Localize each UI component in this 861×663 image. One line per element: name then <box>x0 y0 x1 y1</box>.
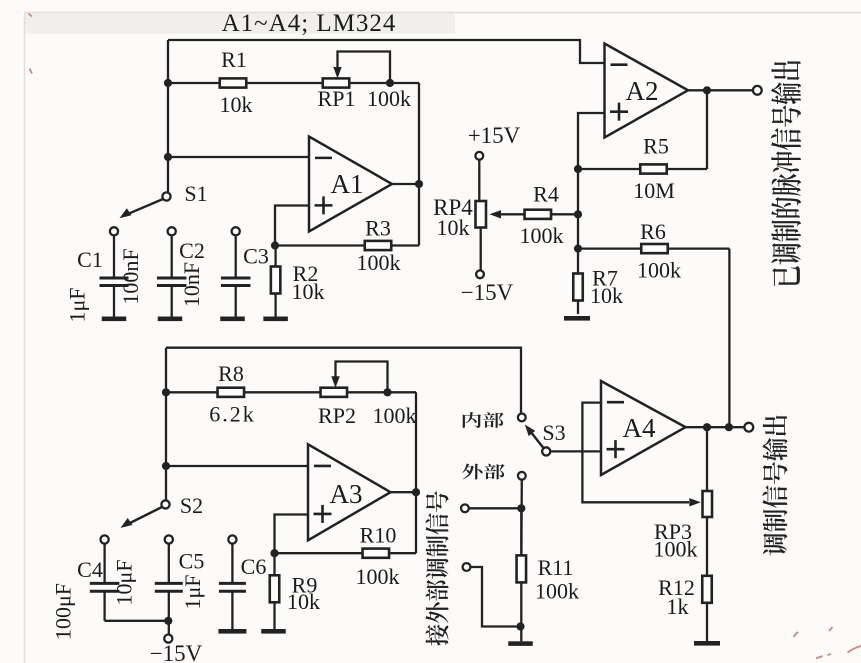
junction rail / A1 inv input <box>164 153 172 161</box>
label modulated pulse signal output <box>771 61 801 286</box>
svg-text:C1: C1 <box>77 247 103 272</box>
junction RP1 right/wiper tie <box>386 79 394 87</box>
junction ext input node <box>517 504 525 512</box>
wire A1 non-inverting input feed <box>275 206 309 246</box>
resistor RP1 <box>323 78 419 87</box>
label modulation signal output <box>762 416 787 556</box>
scan page edge lines <box>25 12 861 14</box>
switch S1 <box>126 192 171 214</box>
switch S2 <box>127 500 170 524</box>
wire A2 output to terminal <box>688 89 753 91</box>
ground C3 ground <box>220 317 245 322</box>
wire A4 inv input to RP3 wiper <box>582 403 689 503</box>
terminal S3 external terminal <box>518 472 526 480</box>
wire A4 output to RP3 <box>706 427 708 491</box>
svg-text:10μF: 10μF <box>112 559 137 605</box>
svg-text:10k: 10k <box>590 283 623 308</box>
wire A1 output <box>392 183 419 185</box>
svg-text:A3: A3 <box>330 479 363 509</box>
svg-text:100k: 100k <box>520 223 564 248</box>
svg-text:−15V: −15V <box>150 641 203 663</box>
wire ext input 2 wire <box>470 567 520 627</box>
RP1 wiper arrow <box>333 67 341 79</box>
svg-text:100k: 100k <box>637 258 681 283</box>
svg-text:100k: 100k <box>535 579 579 604</box>
svg-text:RP2: RP2 <box>318 403 356 428</box>
resistor R5 <box>578 164 707 173</box>
wire top bus A1-rail to A2 inverting input <box>168 40 605 63</box>
wire A1 inverting input <box>168 156 309 158</box>
terminal pulse output terminal <box>753 86 762 95</box>
junction C4/C5/-15V node <box>164 617 172 625</box>
svg-text:100μF: 100μF <box>51 583 76 640</box>
resistor R3 <box>275 241 419 250</box>
svg-text:C6: C6 <box>241 554 267 579</box>
capacitor C5 <box>155 535 183 634</box>
junction R10/R9 node <box>270 549 278 557</box>
svg-text:100k: 100k <box>357 250 401 275</box>
junction A2 output node <box>703 86 711 94</box>
resistor R7 <box>573 249 583 314</box>
junction R11 lower node <box>516 622 524 630</box>
svg-text:100k: 100k <box>356 564 400 589</box>
wire RP3 to R12 <box>706 517 708 576</box>
junction R4 node <box>574 210 582 218</box>
op-amp A4 <box>601 381 686 475</box>
svg-text:+15V: +15V <box>468 123 521 148</box>
R4 wiper arrow <box>490 210 502 218</box>
switch S3 <box>528 429 550 456</box>
svg-text:100k: 100k <box>367 86 411 111</box>
svg-text:100nF: 100nF <box>118 248 143 304</box>
svg-text:6.2k: 6.2k <box>209 402 256 427</box>
svg-text:S3: S3 <box>542 420 565 445</box>
junction A1 output node <box>415 180 423 188</box>
svg-text:C2: C2 <box>179 238 205 263</box>
svg-text:100k: 100k <box>654 537 698 562</box>
svg-text:RP1: RP1 <box>318 86 356 111</box>
junction rail / R1 line <box>164 79 172 87</box>
op-amp A3 <box>308 444 391 540</box>
ground C6 ground <box>218 629 246 634</box>
ground C1 ground <box>102 317 127 322</box>
terminal ext modulation input 2 <box>463 563 471 571</box>
ground R12 ground <box>694 641 720 646</box>
junction A4 out / RP3 node <box>703 423 711 431</box>
terminal ext modulation input 1 <box>461 504 469 512</box>
wire A3 inverting input <box>166 465 308 467</box>
wire RP2 wiper bracket <box>336 362 388 393</box>
capacitor C6 <box>219 535 246 629</box>
svg-text:S1: S1 <box>184 181 207 206</box>
wire S3 pivot to A4 non-inv input <box>550 450 601 452</box>
wire C4 bottom to -15V node <box>105 620 169 622</box>
ground R9 ground <box>261 629 286 634</box>
junction rail / R8 line <box>162 388 170 396</box>
svg-text:R3: R3 <box>365 216 391 241</box>
svg-text:R6: R6 <box>640 219 666 244</box>
ground C2 ground <box>158 317 183 322</box>
S1 arrow <box>120 208 132 218</box>
resistor R2 <box>271 246 281 317</box>
wire left rail x=168 <box>167 40 169 193</box>
wire A3 non-inverting feed <box>275 515 309 554</box>
svg-text:R8: R8 <box>218 361 244 386</box>
svg-text:R5: R5 <box>643 134 669 159</box>
wire external terminal down to R11 <box>520 480 523 557</box>
junction rail / A3 inv input <box>162 462 170 470</box>
svg-text:10k: 10k <box>220 92 253 117</box>
svg-text:A1~A4; LM324: A1~A4; LM324 <box>222 10 397 37</box>
svg-text:10nF: 10nF <box>179 262 204 307</box>
svg-text:S2: S2 <box>180 493 203 518</box>
resistor R6 <box>578 244 729 253</box>
S2 arrow <box>121 518 133 528</box>
resistor R1 <box>168 78 323 87</box>
wire RP1 wiper bracket <box>338 52 391 84</box>
resistor R4 <box>498 210 578 219</box>
resistor RP2 <box>321 388 417 397</box>
junction R6 left node <box>574 245 582 253</box>
svg-text:1μF: 1μF <box>180 574 205 609</box>
svg-text:R11: R11 <box>538 555 574 580</box>
resistor R10 <box>275 549 417 558</box>
terminal -15V terminal <box>164 635 172 643</box>
resistor R8 <box>166 388 321 397</box>
svg-text:C5: C5 <box>179 549 205 574</box>
wire A2 non-inv feed / x=578 rail <box>578 113 605 249</box>
svg-text:C3: C3 <box>243 244 269 269</box>
junction R3/R2 node <box>271 241 279 249</box>
junction A3 output node <box>412 488 420 496</box>
wire A3 output <box>391 491 417 493</box>
svg-text:10k: 10k <box>437 215 470 240</box>
wire R6 to A4 output <box>728 249 730 428</box>
terminal S3 internal terminal <box>518 414 526 422</box>
ground R2 ground <box>263 317 288 322</box>
svg-text:−15V: −15V <box>461 280 514 305</box>
label external modulation signal input <box>425 491 448 645</box>
capacitor C2 <box>157 227 187 316</box>
resistor R12 <box>702 576 712 641</box>
ground R11 ground <box>508 641 533 646</box>
svg-text:100k: 100k <box>373 403 417 428</box>
capacitor C3 <box>221 227 251 316</box>
junction A4 out / R6 node <box>725 423 733 431</box>
op-amp A2 <box>605 44 689 138</box>
svg-text:R4: R4 <box>533 182 559 207</box>
resistor R9 <box>270 553 280 629</box>
svg-text:10k: 10k <box>287 589 320 614</box>
S3 arrow <box>525 425 536 437</box>
junction RP2 right/wiper tie <box>383 388 391 396</box>
capacitor C4 <box>90 535 120 620</box>
wire R5 feedback right leg <box>706 90 708 169</box>
resistor R11 <box>517 508 527 641</box>
RP2 wiper arrow <box>331 376 339 388</box>
svg-text:A2: A2 <box>626 76 659 106</box>
RP3 wiper arrow <box>689 498 701 506</box>
svg-text:1k: 1k <box>667 594 689 619</box>
svg-text:A1: A1 <box>331 169 364 199</box>
wire A4 output to terminal <box>686 426 745 428</box>
potentiometer RP4 <box>475 152 486 278</box>
capacitor C1 <box>100 227 129 316</box>
svg-text:C4: C4 <box>77 557 103 582</box>
svg-text:R1: R1 <box>221 47 247 72</box>
potentiometer RP3 <box>703 491 713 517</box>
ground R7 ground <box>564 316 590 321</box>
wire ext input 1 wire <box>469 507 522 509</box>
label internal label <box>463 412 504 428</box>
wire bottom bus to S3 internal terminal <box>166 348 521 414</box>
svg-text:1μF: 1μF <box>65 287 90 322</box>
svg-text:R10: R10 <box>360 523 397 548</box>
svg-text:10M: 10M <box>633 178 675 203</box>
terminal modulation signal output terminal <box>744 423 753 432</box>
wire A3 feedback rail x=416 <box>415 392 417 553</box>
wire A1 feedback rail x=419 <box>418 83 420 246</box>
wire left rail bottom <box>165 348 167 501</box>
label external label <box>462 464 504 480</box>
junction R5 left node <box>574 165 582 173</box>
svg-text:10k: 10k <box>292 279 325 304</box>
svg-text:A4: A4 <box>623 413 656 443</box>
op-amp A1 <box>309 137 392 232</box>
